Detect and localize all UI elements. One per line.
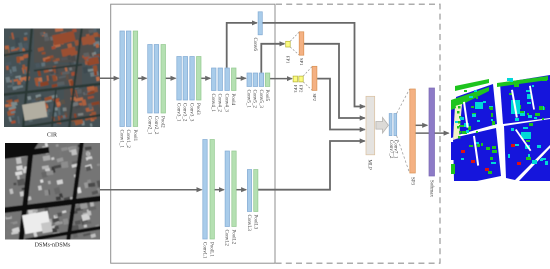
conv layer Conv5_2 [253,73,258,87]
svg-text:DSMs-nDSMs: DSMs-nDSMs [35,243,71,249]
wire ConvL3 to MLP [258,141,365,190]
svg-text:FP3: FP3 [293,85,298,93]
dashed fusion-module box [275,4,440,263]
pool layer Pool4 [232,68,237,91]
conv layer Conv4_2 [218,68,223,91]
solid CNN box [111,4,275,263]
conv layer ConvL2 [225,151,229,227]
conv layer Conv4_1 [212,68,217,91]
conv layer Conv3_1 [177,57,182,101]
svg-text:PoolL3: PoolL3 [252,215,257,230]
pool layer Pool1 [133,31,138,127]
svg-text:PoolL2: PoolL2 [230,230,235,245]
conv layer Conv3_3 [190,57,195,101]
conv layer Conv5_3 [259,73,264,87]
svg-text:Conv4_1: Conv4_1 [210,94,215,113]
svg-text:SP1: SP1 [299,58,304,66]
conv layer Conv7_2 [389,114,392,136]
pyramid bar SP3 [410,89,416,173]
svg-text:Conv6: Conv6 [252,38,257,52]
svg-text:Conv5_3: Conv5_3 [258,90,263,109]
svg-text:Conv2_1: Conv2_1 [146,116,151,135]
feature map FP3 [293,76,297,82]
wire Conv3 to Conv4 [201,77,210,79]
conv layer Conv4_3 [225,68,230,91]
conv layer Conv2_1 [148,45,153,114]
conv layer Conv3_2 [183,57,188,101]
svg-text:ConvL1: ConvL1 [201,242,206,259]
pool layer PoolL1 [210,140,214,240]
wire Conv4_3 to Conv6 [227,23,257,68]
conv layer Conv7_1 [394,114,397,136]
output segmentation map [451,72,550,181]
svg-text:Conv5_2: Conv5_2 [252,90,257,109]
svg-text:Conv2_2: Conv2_2 [153,116,158,135]
input image CIR [2,26,102,129]
pool layer Pool3 [197,57,202,101]
block arrow MLP to Conv7 [376,118,389,134]
svg-text:Pool2: Pool2 [160,116,165,128]
svg-text:Conv1_1: Conv1_1 [119,130,124,149]
wire DSM to ConvL1 [100,189,202,191]
svg-text:Pool3: Pool3 [195,103,200,115]
wire ConvL1 to ConvL2 [214,189,223,191]
dashed expand lines FP2 to SP2 [303,67,312,91]
pool layer PoolL3 [254,170,258,212]
wire Conv1 to Conv2 [138,77,147,79]
wire ConvL2 to ConvL3 [236,189,246,191]
conv layer Conv5_1 [247,73,252,87]
input image DSMs-nDSMs [3,141,102,242]
svg-text:CIR: CIR [47,133,57,139]
dashed expand lines Conv7 to SP3 [397,89,410,173]
wire SP3 to Softmax [416,124,428,126]
svg-text:MLP: MLP [367,160,372,171]
svg-text:Pool1: Pool1 [132,130,137,142]
conv layer Conv6 [258,12,262,35]
MLP layer [366,96,375,155]
feature map FP1 [286,41,291,47]
feature map FP2 [299,76,303,82]
svg-text:SP2: SP2 [312,94,317,102]
wire CIR to Conv1 [100,77,119,79]
pool layer PoolL2 [232,151,236,227]
wire SP1 to MLP [304,44,365,118]
pool layer Pool2 [161,45,166,114]
conv layer Conv1_1 [120,31,125,127]
svg-text:Softmax: Softmax [429,180,434,197]
conv layer Conv1_2 [126,31,130,127]
pool layer Pool5 [265,73,270,87]
svg-text:Conv5_1: Conv5_1 [246,90,251,109]
wire Conv4 to Conv5 [236,77,246,79]
svg-text:PoolL1: PoolL1 [209,242,214,257]
softmax layer [429,88,435,176]
wire Conv2 to Conv3 [165,77,175,79]
svg-text:Conv3_1: Conv3_1 [175,103,180,122]
wire Conv5_3 to FP1 [261,44,284,73]
wire Pool5 to FP2-FP3 [270,78,292,80]
svg-text:Pool5: Pool5 [264,90,269,102]
svg-text:Conv3_3: Conv3_3 [188,103,193,122]
svg-text:SP3: SP3 [409,177,414,186]
svg-text:Conv4_3: Conv4_3 [224,94,229,113]
svg-text:Pool4: Pool4 [230,94,235,106]
conv layer ConvL3 [247,170,251,212]
dashed expand lines FP1 to SP1 [290,32,299,55]
wire SP3 to output map [416,132,449,134]
wire SP2 to MLP [317,79,365,130]
svg-text:ConvL2: ConvL2 [224,230,229,247]
svg-text:FP1: FP1 [285,56,290,64]
svg-text:Conv4_2: Conv4_2 [217,94,222,113]
pyramid bar SP1 [299,32,304,55]
svg-text:Conv7_2: Conv7_2 [388,140,393,159]
conv layer Conv2_2 [154,45,159,114]
wire Conv6 to MLP [262,23,364,107]
svg-text:Conv7_1: Conv7_1 [392,140,397,159]
conv layer ConvL1 [203,140,207,240]
svg-text:ConvL3: ConvL3 [246,215,251,232]
svg-text:Conv1_2: Conv1_2 [125,130,130,149]
svg-text:FP2: FP2 [299,85,304,93]
svg-text:Conv3_2: Conv3_2 [182,103,187,122]
pyramid bar SP2 [312,66,317,90]
